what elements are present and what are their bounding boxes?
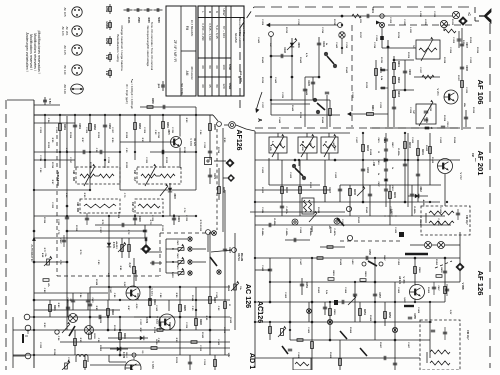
resistor R409: [389, 192, 392, 199]
svg-text:C 437b: C 437b: [285, 206, 288, 214]
svg-text:C 80: C 80: [97, 260, 99, 265]
IF transformer FM10.7 row1: [137, 167, 181, 184]
switch mid right: [337, 218, 344, 226]
svg-text:Änderungen vorbehalten !: Änderungen vorbehalten !: [25, 32, 29, 71]
thick screen bar: [405, 253, 428, 255]
rail y160: [255, 159, 460, 161]
varactor diode: [291, 38, 293, 100]
svg-text:C 231: C 231: [379, 102, 381, 109]
svg-text:Modifications reserved !: Modifications reserved !: [29, 34, 33, 70]
svg-text:C207: C207: [465, 42, 467, 48]
svg-text:AF 126: AF 126: [61, 26, 65, 35]
capacitor C197: [223, 248, 227, 250]
AM RF rail x388: [387, 40, 389, 127]
IF block dashed boundary left: [56, 135, 58, 276]
arrow AM out: [347, 112, 351, 116]
svg-text:R 462: R 462: [261, 307, 264, 314]
diode X673: [117, 347, 121, 351]
svg-text:X 671: X 671: [112, 242, 115, 249]
transistor V212: [438, 159, 453, 174]
svg-text:R193: R193: [123, 333, 125, 339]
svg-text:R 310: R 310: [157, 132, 159, 139]
svg-text:C 235: C 235: [281, 92, 283, 99]
svg-text:FM 10,7: FM 10,7: [465, 215, 468, 225]
antenna symbol: [479, 15, 484, 17]
svg-text:R 217: R 217: [359, 32, 361, 39]
capacitor C452: [323, 306, 327, 308]
capacitor C472: [87, 293, 89, 310]
capacitor C410: [338, 188, 342, 190]
junction dots top tuner: [270, 55, 272, 57]
resistor R198: [157, 329, 163, 332]
trimmer R474: [234, 284, 237, 290]
svg-text:C 94: C 94: [57, 336, 60, 341]
svg-text:V 451: V 451: [402, 276, 406, 284]
svg-text:C448: C448: [283, 47, 286, 53]
capacitor C180: [162, 105, 164, 109]
tuning gang connector 2 (crossed): [339, 32, 345, 38]
svg-text:R 338: R 338: [153, 327, 155, 334]
svg-text:R 226: R 226: [472, 107, 474, 114]
svg-text:R 326: R 326: [75, 225, 77, 232]
wire y365 partial: [90, 364, 140, 366]
svg-text:R 65: R 65: [223, 138, 225, 143]
switch contact row L: [188, 271, 192, 275]
capacitor C208: [460, 66, 464, 68]
svg-text:R 466: R 466: [427, 287, 430, 294]
svg-text:80: 80: [208, 65, 212, 69]
rail x235 switch: [234, 233, 236, 330]
resistor R181: [59, 124, 62, 131]
capacitor C457: [373, 293, 377, 295]
rail x255 right block: [254, 131, 256, 368]
svg-text:R 314: R 314: [217, 147, 220, 154]
svg-text:C 68: C 68: [65, 193, 67, 198]
tiny trimmer: [309, 213, 317, 222]
svg-text:C181: C181: [78, 123, 80, 129]
junction connector 4 (crossed): [438, 242, 445, 249]
resistor R191: [49, 300, 51, 317]
resistor R456: [444, 287, 447, 294]
emitter resistor V671: [137, 293, 139, 300]
arrow input A: [266, 23, 270, 27]
svg-text:500V: 500V: [157, 17, 160, 23]
switch contact row M: [188, 260, 192, 264]
dashed border y25 segment: [388, 24, 473, 26]
FM IF filter box 2: [420, 320, 460, 370]
svg-text:Gammes / Gamas: Gammes / Gamas: [242, 17, 246, 42]
svg-text:C 315: C 315: [39, 155, 41, 162]
emitter wire V451: [414, 299, 416, 303]
resistor R460: [414, 267, 417, 274]
resistor R189: [128, 245, 131, 252]
emitter details V672: [169, 322, 171, 330]
capacitor C404: [416, 173, 420, 175]
transistor pinout diagram 3: [72, 45, 82, 55]
svg-text:R 230: R 230: [425, 117, 427, 124]
resistor R452: [384, 312, 387, 319]
svg-text:FM: FM: [133, 170, 136, 173]
svg-text:«ZF/IF(HF/FI): «ZF/IF(HF/FI): [56, 170, 60, 186]
svg-text:R 85: R 85: [95, 306, 97, 311]
svg-text:C213: C213: [446, 122, 448, 128]
cut resistor bottom 2: [214, 355, 216, 370]
wire stub y123: [34, 122, 75, 124]
left block main vertical rail: [33, 100, 35, 368]
svg-text:C 431: C 431: [411, 137, 414, 144]
svg-text:C 64: C 64: [199, 130, 202, 135]
svg-text:C 214: C 214: [321, 27, 324, 34]
svg-text:10,7 MHz/Mc: 10,7 MHz/Mc: [190, 20, 194, 37]
svg-text:R417: R417: [391, 143, 394, 149]
svg-text:AA 113: AA 113: [115, 241, 118, 249]
svg-text:R 430b: R 430b: [397, 148, 400, 156]
svg-text:C 237: C 237: [261, 102, 263, 109]
svg-text:C 421: C 421: [261, 167, 264, 174]
resistor R193: [119, 317, 121, 355]
svg-text:FM: FM: [471, 153, 474, 157]
svg-text:R 308: R 308: [125, 132, 127, 139]
svg-text:3,1V: 3,1V: [128, 263, 131, 268]
svg-text:R184: R184: [166, 122, 169, 128]
IF row1 vertical wires: [44, 115, 46, 168]
resistor R454: [311, 342, 314, 349]
IF transformer AM460 row1: [76, 167, 120, 184]
svg-text:R 423: R 423: [357, 217, 360, 224]
capacitor C183: [82, 150, 84, 154]
svg-text:C 446: C 446: [278, 117, 281, 124]
svg-text:V 671: V 671: [150, 288, 154, 296]
svg-text:R 312: R 312: [183, 147, 185, 154]
svg-text:C206: C206: [408, 69, 410, 75]
dashed frame top: [254, 6, 475, 8]
transistor pinout diagram 4: [72, 65, 82, 75]
svg-text:X672: X672: [173, 193, 175, 199]
svg-text:R 103: R 103: [99, 345, 101, 352]
svg-text:R183: R183: [138, 123, 140, 129]
svg-text:R 212: R 212: [285, 27, 287, 34]
svg-text:C 70: C 70: [123, 193, 125, 198]
svg-text:X670: X670: [167, 129, 169, 135]
IF row2 wire y152: [34, 151, 120, 153]
svg-text:R 449: R 449: [339, 259, 342, 266]
svg-text:C415: C415: [377, 138, 380, 144]
svg-text:C201: C201: [371, 7, 373, 13]
rail y302: [255, 301, 445, 303]
resistor R402: [362, 133, 364, 202]
svg-text:C 441: C 441: [257, 37, 260, 44]
dashed frame corner step: [474, 7, 476, 21]
rail y340: [290, 339, 430, 341]
wire y100: [271, 99, 314, 101]
svg-text:65: 65: [208, 84, 212, 88]
svg-text:R 422: R 422: [309, 182, 312, 189]
svg-text:C 313: C 313: [203, 142, 205, 149]
svg-text:R 446: R 446: [291, 105, 294, 112]
svg-text:R 318: R 318: [89, 162, 91, 169]
transistor V670: [120, 141, 170, 143]
svg-text:10,7: 10,7: [133, 177, 136, 182]
AGC trimmer: [34, 261, 67, 263]
trimmer resistor R188: [121, 245, 124, 252]
0.28V dashed pointer: [384, 215, 398, 217]
svg-text:AF 105: AF 105: [63, 7, 67, 16]
svg-text:V 686: V 686: [151, 361, 155, 369]
svg-text:60: 60: [201, 84, 205, 88]
svg-text:R 215: R 215: [333, 19, 335, 26]
svg-text:C 220: C 220: [403, 19, 405, 26]
svg-text:R 63: R 63: [185, 118, 187, 123]
rail y358: [255, 357, 420, 359]
svg-text:C 76: C 76: [57, 230, 59, 235]
resistor R410: [299, 187, 302, 194]
resistor R411: [327, 246, 333, 249]
resistor R180: [147, 106, 153, 109]
junction crossed x309: [307, 309, 312, 314]
svg-text:R 208: R 208: [443, 115, 445, 122]
svg-text:0,515 – 1,640: 0,515 – 1,640: [208, 23, 212, 41]
IF transformer AM460 row2: [80, 199, 120, 213]
svg-text:C 317: C 317: [69, 157, 71, 164]
switch lower 1: [340, 331, 347, 339]
capacitor C438: [445, 288, 449, 290]
dark electrolytic blob: [399, 232, 404, 237]
svg-text:osc.– mV–: osc.– mV–: [239, 71, 242, 84]
rail y185: [340, 184, 441, 186]
resistor R182: [89, 124, 92, 131]
resistor R190 3.1V: [133, 258, 135, 287]
capacitor C454: [341, 300, 343, 304]
capacitor C448: [271, 55, 292, 57]
svg-text:R 336: R 336: [113, 325, 115, 332]
svg-text:R 105: R 105: [175, 357, 177, 364]
svg-text:C418: C418: [391, 186, 394, 192]
svg-text:C 450: C 450: [397, 259, 400, 266]
volume control arrow: [62, 324, 70, 333]
wire x312 down: [311, 226, 313, 232]
svg-text:C197: C197: [228, 247, 230, 253]
extra junction dots final: [59, 151, 61, 153]
svg-text:AD 149: AD 149: [63, 84, 67, 94]
connector X471A: [232, 248, 237, 253]
svg-text:C 329: C 329: [151, 215, 153, 222]
switch section left border dashed: [159, 233, 161, 276]
svg-text:C471: C471: [66, 298, 69, 304]
resistor R203: [393, 91, 396, 98]
capacitor C193: [143, 229, 147, 231]
svg-text:R 211: R 211: [380, 57, 382, 63]
capacitor C201: [366, 14, 368, 18]
svg-text:M: M: [301, 141, 305, 143]
circle crossed V-gang: [440, 20, 447, 27]
trimmer arrow through FM coil: [145, 166, 156, 186]
svg-text:R403: R403: [408, 142, 411, 148]
svg-text:R 302: R 302: [47, 142, 49, 149]
dashed frame right: [489, 23, 491, 368]
svg-text:L452: L452: [351, 260, 354, 266]
svg-text:C 307: C 307: [111, 127, 113, 134]
rail y212: [250, 211, 345, 213]
svg-text:R 306: R 306: [97, 132, 99, 139]
svg-text:R450: R450: [332, 271, 335, 277]
svg-text:FM: FM: [185, 26, 189, 31]
svg-text:R202: R202: [397, 77, 399, 83]
svg-text:V 670: V 670: [189, 138, 193, 146]
vertical rail x223: [222, 128, 224, 232]
svg-text:C 62: C 62: [154, 130, 156, 135]
svg-text:R 209: R 209: [407, 52, 409, 59]
svg-text:R203: R203: [397, 91, 399, 97]
AM coil box K: [321, 137, 338, 153]
audio rail y330: [13, 329, 230, 331]
svg-text:6,2V: 6,2V: [107, 273, 109, 278]
svg-text:L 201: L 201: [359, 17, 361, 23]
svg-text:C 209: C 209: [261, 19, 263, 26]
right rail x462: [461, 28, 463, 130]
svg-text:R 340: R 340: [201, 332, 204, 339]
rail y282: [270, 281, 445, 283]
svg-text:L 204: L 204: [419, 11, 422, 17]
svg-text:C 82: C 82: [43, 288, 45, 293]
junction connector 1: [292, 219, 298, 225]
volume switch lever: [69, 326, 75, 336]
tuning gang connector 1: [269, 32, 274, 37]
svg-text:R195: R195: [183, 305, 185, 311]
capacitor C487: [62, 239, 66, 241]
svg-text:C 54: C 54: [47, 118, 50, 123]
svg-text:R 442: R 442: [299, 57, 302, 64]
resistor R457: [317, 257, 323, 260]
svg-text:R 87: R 87: [127, 306, 129, 311]
svg-text:R430: R430: [364, 272, 367, 278]
lamp 2: [85, 326, 94, 335]
svg-text:C 218: C 218: [373, 42, 375, 49]
svg-text:R402: R402: [366, 145, 369, 151]
IF block dashed boundary bottom: [57, 275, 160, 277]
wire to diamond: [223, 177, 227, 179]
resistor R186c: [151, 347, 157, 350]
wire x460 lower: [459, 258, 461, 263]
wire to connector: [207, 235, 209, 252]
resistor R192: [107, 300, 109, 330]
svg-text:AD 1: AD 1: [248, 353, 257, 369]
transistor V686: [125, 360, 141, 375]
svg-text:R 316: R 316: [51, 162, 53, 169]
svg-text:FM 10,7: FM 10,7: [466, 330, 469, 340]
svg-text:R 232: R 232: [365, 82, 367, 89]
svg-text:AUTOMATIC: AUTOMATIC: [30, 244, 34, 262]
cut resistor bottom 1: [84, 355, 86, 370]
svg-text:R 228: R 228: [443, 57, 445, 64]
svg-text:X471A: X471A: [237, 253, 240, 261]
wire y245 right: [410, 244, 424, 246]
wire y77 oscillator: [414, 76, 440, 78]
svg-text:C 321: C 321: [145, 157, 147, 164]
wire y90: [394, 89, 414, 91]
svg-text:R 234: R 234: [299, 112, 302, 119]
connection arrow A: [257, 92, 263, 109]
svg-text:C451: C451: [305, 282, 308, 288]
capacitor C202 input: [458, 31, 460, 48]
svg-text:C 462: C 462: [261, 265, 264, 272]
resistor R200a: [74, 330, 76, 355]
svg-text:C 202: C 202: [389, 17, 391, 24]
wire y60: [394, 59, 414, 61]
resistor R459: [329, 309, 332, 316]
svg-text:R 89: R 89: [175, 293, 177, 298]
svg-text:R 344: R 344: [191, 295, 194, 302]
switch section top border dashed: [160, 232, 212, 234]
svg-text:C 467: C 467: [407, 342, 410, 349]
svg-text:osc.: osc.: [474, 158, 476, 163]
svg-text:C 78: C 78: [59, 260, 61, 265]
capacitor C204a: [381, 27, 383, 48]
svg-text:R460: R460: [418, 267, 421, 273]
wire links switch box: [146, 251, 162, 253]
trimmer arrow mid: [348, 297, 356, 305]
svg-text:R 444b: R 444b: [261, 228, 264, 236]
svg-text:C 345: C 345: [215, 292, 218, 299]
resistor R185: [209, 124, 212, 131]
svg-text:C 229: C 229: [409, 107, 411, 114]
capacitor C405: [383, 158, 385, 162]
svg-text:R452: R452: [388, 312, 391, 318]
svg-text:R 425: R 425: [419, 219, 422, 226]
svg-text:R 434: R 434: [453, 137, 456, 144]
svg-text:R 219: R 219: [397, 32, 399, 39]
svg-text:MHz/Mc: MHz/Mc: [234, 33, 238, 44]
rail x386 mid: [385, 133, 387, 207]
svg-text:C 60: C 60: [125, 148, 127, 153]
page border dashed left: [5, 100, 7, 370]
svg-text:R 464: R 464: [349, 327, 352, 334]
svg-text:R 334: R 334: [53, 349, 56, 356]
svg-text:C 311: C 311: [171, 127, 173, 133]
antenna input coil: [443, 28, 445, 31]
resistor R199: [191, 341, 197, 344]
svg-text:AF 201: AF 201: [65, 26, 69, 35]
capacitor C209: [464, 116, 468, 118]
svg-text:R 91: R 91: [205, 316, 207, 321]
svg-text:–2,5V–: –2,5V–: [135, 303, 137, 311]
svg-text:60: 60: [215, 65, 219, 69]
svg-text:AF 126: AF 126: [476, 271, 485, 296]
svg-text:C449: C449: [322, 41, 325, 47]
capacitor C459: [353, 293, 357, 295]
base connector circle: [132, 353, 136, 357]
switch contact circle: [217, 270, 221, 274]
svg-text:R 93: R 93: [43, 323, 45, 328]
wire y190: [34, 189, 90, 191]
svg-text:250V: 250V: [137, 17, 140, 23]
svg-text:C 447: C 447: [299, 259, 302, 266]
capacitor C409: [410, 193, 414, 195]
capacitor C181: [73, 124, 77, 126]
wire y48 antenna section: [382, 47, 416, 49]
resistor R406: [281, 187, 284, 194]
junction dots x34: [33, 230, 35, 232]
svg-text:AF 201: AF 201: [476, 151, 485, 177]
svg-text:FM: FM: [131, 202, 134, 205]
resistor R405: [429, 133, 431, 185]
svg-text:C 323: C 323: [51, 202, 53, 209]
svg-text:←FM: ←FM: [372, 160, 375, 166]
svg-text:C 464: C 464: [344, 287, 347, 294]
svg-text:C416: C416: [377, 160, 380, 166]
resistor R456b: [436, 275, 442, 278]
wire bend to AF output circle: [213, 115, 218, 121]
svg-text:R191: R191: [53, 305, 55, 311]
